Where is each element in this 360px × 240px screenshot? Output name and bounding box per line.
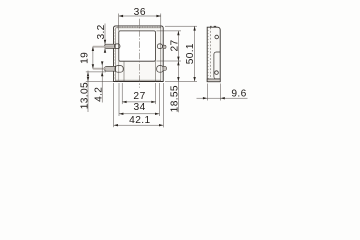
- dimension 13.05: dimension line: [87, 71, 89, 113]
- right stub row2 (terminal end): [163, 66, 167, 70]
- dimension 42.1: right arrow: [159, 124, 163, 126]
- dimension 4.2: upper arrow (points down): [101, 61, 103, 65]
- prong 1 (left terminal, upper): [104, 44, 115, 48]
- slot row2 left: [115, 66, 123, 73]
- side view left edge serration ticks: [207, 30, 208, 78]
- dimension 42.1: extension line right: [162, 83, 164, 127]
- side view notch at mid left: [214, 52, 220, 79]
- dimension 50.1 / 18.55: extension line bottom: [165, 80, 197, 82]
- dimension 9.6: extension line right: [219, 84, 221, 101]
- dimension 27 bottom: extension line left: [121, 83, 123, 104]
- pocket right vertical line: [154, 61, 156, 82]
- dimension 27 right / 18.55: extension line at window top: [157, 30, 182, 32]
- svg-text:27: 27: [133, 91, 145, 102]
- svg-text:19: 19: [80, 52, 91, 64]
- side view hidden line (dashed): [209, 28, 211, 82]
- dimension 19: extension line upper (prong1 centre): [93, 46, 114, 48]
- dimension 3.2: lower arrow (points up): [104, 48, 106, 52]
- dimension 27/18.55: shared dimension line: [177, 31, 179, 112]
- dimension 36: extension line left: [118, 14, 120, 31]
- dimension 50.1: upper arrow: [193, 26, 195, 30]
- svg-text:42.1: 42.1: [129, 115, 150, 126]
- dimension 27 right: upper arrow: [177, 31, 179, 35]
- dimension 36: extension line right: [160, 14, 162, 28]
- svg-text:3.2: 3.2: [96, 24, 107, 39]
- dimension 3.2: upper arrow (points down): [104, 40, 106, 44]
- front view left edge serration ticks: [114, 30, 116, 78]
- window left edge extension below: [118, 61, 120, 82]
- front view window (inner rectangle): [119, 31, 156, 61]
- dimension 34: dimension line: [119, 113, 159, 115]
- dimension 27 bottom: extension line right: [155, 83, 157, 104]
- dimension 34: extension line right: [158, 83, 160, 116]
- dimension 34: extension line left: [118, 83, 120, 116]
- side view outer body: [207, 27, 220, 81]
- dimension 50.1: extension line top: [165, 25, 197, 27]
- dimension 50.1: lower arrow: [193, 77, 195, 81]
- svg-text:9.6: 9.6: [231, 89, 246, 100]
- dimension 19: lower arrow: [92, 64, 94, 68]
- dimension 4.2: lower arrow (points up): [101, 72, 103, 76]
- right stub row1 (terminal end): [163, 45, 166, 48]
- slot row1 right: [157, 44, 162, 49]
- centerline vertical (dash-dot): [138, 19, 140, 88]
- dimension 27 bottom: right arrow: [151, 101, 155, 103]
- dimension 18.55: lower arrow: [177, 77, 179, 81]
- dimension 18.55: upper arrow: [177, 61, 179, 65]
- dimension 42.1: extension line left: [113, 83, 115, 127]
- svg-text:36: 36: [134, 7, 146, 18]
- dimension 13.05: upper arrow: [87, 72, 89, 76]
- dimension 36: right arrow: [156, 15, 160, 17]
- dimension 9.6: right arrow (points left): [220, 97, 224, 99]
- dimension 13.05: extension line lower (body bottom): [86, 80, 114, 82]
- front view outer body: [114, 26, 164, 82]
- svg-text:27: 27: [169, 39, 180, 51]
- dimension 13.05: extension line upper (prong2 bottom): [86, 71, 106, 73]
- dimension 4.2: dimension line: [101, 63, 103, 103]
- dimension 27 right / 18.55: extension line at window bottom: [157, 60, 182, 62]
- svg-text:34: 34: [133, 102, 145, 113]
- dimension 27 right: lower arrow: [177, 57, 179, 61]
- dimension 50.1: dimension line: [194, 26, 196, 81]
- dimension 27 bottom: dimension line: [122, 101, 156, 103]
- front view top inner edge line: [116, 27, 162, 29]
- front view left inner edge line: [114, 28, 116, 81]
- svg-text:18.55: 18.55: [170, 85, 181, 112]
- dimension 9.6: left arrow (points right): [203, 97, 207, 99]
- svg-text:13.05: 13.05: [79, 82, 90, 109]
- pocket left vertical line: [123, 61, 125, 82]
- slot row1 left: [115, 44, 121, 49]
- dimension 9.6: dimension line: [197, 97, 248, 99]
- prong 2 (left terminal, lower): [104, 66, 115, 71]
- dimension 42.1: left arrow: [114, 124, 118, 126]
- dimension 27 bottom: left arrow: [122, 101, 126, 103]
- dimension 13.05: lower arrow: [87, 77, 89, 81]
- dimension 42.1: dimension line: [114, 124, 164, 126]
- dimension 36: left arrow: [119, 15, 123, 17]
- dimension 36: dimension line: [119, 15, 161, 17]
- dimension 34: left arrow: [119, 113, 123, 115]
- dimension 19: extension line lower (prong2 top): [93, 68, 106, 70]
- side view top small tabs: [210, 25, 216, 27]
- svg-text:50.1: 50.1: [185, 43, 196, 64]
- svg-text:4.2: 4.2: [94, 87, 105, 102]
- dimension 34: right arrow: [155, 113, 159, 115]
- dimension 3.2: dimension line: [104, 24, 106, 53]
- side view bottom base strip: [207, 79, 220, 82]
- front view top edge serration ticks: [118, 26, 161, 28]
- side view hole lower: [215, 71, 219, 75]
- dimension 19: dimension line: [92, 47, 94, 69]
- front view right inner wall line: [160, 28, 162, 81]
- side view hole upper: [215, 35, 219, 39]
- slot row2 right: [157, 66, 164, 73]
- front view bottom inner edge line: [115, 79, 161, 81]
- dimension 9.6: extension line left: [206, 84, 208, 101]
- dimension 19: upper arrow: [92, 47, 94, 51]
